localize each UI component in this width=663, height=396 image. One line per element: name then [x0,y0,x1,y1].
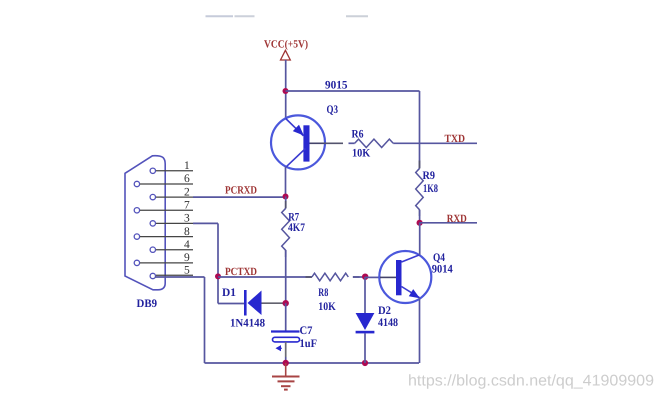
wire D2 top [364,277,366,313]
wire D1 anode to node [262,302,286,304]
wire pin5 to ground run [155,276,205,278]
svg-text:DB9: DB9 [137,298,158,310]
DB9 pin 5 circle [150,273,155,278]
wire PCRXD from pin2 [193,196,286,198]
DB9 pin 1 circle [150,168,155,173]
svg-text:8: 8 [184,226,190,238]
svg-text:VCC(+5V): VCC(+5V) [264,39,308,51]
wire R6 to TXD vertical [393,142,419,144]
node PCTXD junction [215,273,221,279]
svg-text:1uF: 1uF [300,338,318,350]
svg-text:9014: 9014 [432,264,453,276]
wire 9015 horizontal [286,90,420,92]
pin 5 stub [156,265,193,277]
svg-text:7: 7 [184,200,190,212]
wire node to C7 [285,303,287,331]
resistor R9 [419,161,421,169]
svg-text:1: 1 [184,160,190,172]
node D1/C7 junction [283,300,289,306]
wire C7 to ground node [285,342,287,357]
svg-text:Q3: Q3 [327,104,339,116]
wire Q4 collector up to RXD [419,223,421,255]
resistor R8 [306,276,312,278]
wire Q3 collector down [285,167,287,197]
wire bottom ground run [205,362,420,364]
wire VCC vertical to Q3 emitter [285,60,287,120]
DB9 pin 6 circle [134,181,139,186]
svg-text:2: 2 [184,186,190,198]
svg-text:PCRXD: PCRXD [225,185,257,197]
wire D1 left segment [218,303,244,305]
wire pin3 vertical to PCTXD [217,223,219,303]
DB9 pin 8 circle [134,234,139,239]
svg-text:PCTXD: PCTXD [225,266,257,278]
pin 9 stub [140,252,193,264]
transistor Q3 (9015 PNP) [271,115,325,169]
wire RXD line [420,222,477,224]
pin 1 stub [156,160,193,172]
wire PCRXD junction to R7 [285,197,287,209]
pin 7 stub [140,200,193,212]
svg-text:10K: 10K [318,301,336,313]
svg-text:4K7: 4K7 [288,222,305,234]
node RXD junction [417,220,423,226]
svg-text:1K8: 1K8 [423,183,438,195]
background artifacts top [206,15,369,17]
svg-text:5: 5 [184,265,190,277]
svg-text:D2: D2 [378,305,391,317]
svg-text:10K: 10K [352,147,370,159]
wire TXD line [420,142,478,144]
node D2 top junction [362,274,368,280]
wire PCTXD line [218,276,312,278]
svg-text:https://blog.csdn.net/qq_41909: https://blog.csdn.net/qq_41909909 [408,373,654,390]
svg-text:D1: D1 [222,287,236,299]
pin 3 stub [156,213,193,225]
wire Q4 emitter down [419,298,421,363]
node D2 bottom junction [362,360,368,366]
wire R7 bottom to D1 node [285,250,287,303]
transistor Q4 (9014 NPN) [379,251,431,303]
wire Q3 base to R6 [324,142,343,144]
DB9 connector J1 body [125,156,165,290]
diode D1 1N4148 [244,290,262,316]
svg-text:Q4: Q4 [433,252,445,264]
svg-text:9015: 9015 [325,80,348,92]
capacitor C7 1uF [271,332,300,351]
pin 6 stub [140,173,193,185]
svg-text:R8: R8 [318,287,328,299]
svg-text:R6: R6 [352,128,364,140]
svg-text:3: 3 [184,213,190,225]
resistor R7 [285,201,287,208]
node C7/ground junction [283,360,289,366]
wire junction to Q4 base [365,276,381,278]
wire pin5 vertical down [204,277,206,363]
node VCC/9015 junction [283,88,289,94]
pin 8 stub [140,226,193,238]
wire R8 to D2 junction [353,276,365,278]
diode D2 4148 [356,313,375,333]
svg-text:4: 4 [184,239,190,251]
resistor R6 [355,139,394,147]
svg-text:1N4148: 1N4148 [230,318,265,330]
svg-text:4148: 4148 [378,317,398,329]
pin 4 stub [156,239,193,251]
svg-text:R9: R9 [423,170,436,182]
wire D2 bottom [364,333,366,363]
pin 2 stub [156,186,193,198]
DB9 pin 2 circle [150,194,155,199]
svg-text:C7: C7 [300,325,313,337]
node PCRXD junction [283,194,289,200]
DB9 pin 7 circle [134,208,139,213]
power symbol VCC(+5V) [264,39,308,60]
DB9 pin 3 circle [150,221,155,226]
wire pin3 horizontal [193,222,218,224]
svg-text:6: 6 [184,173,190,185]
svg-text:TXD: TXD [445,133,466,145]
ground symbol [272,363,300,390]
DB9 pin 9 circle [134,260,139,265]
wire right vertical 9015 to R9 [419,91,421,168]
wire R9 to RXD junction [419,210,421,223]
svg-text:9: 9 [184,252,190,264]
DB9 pin 4 circle [150,247,155,252]
svg-text:RXD: RXD [447,213,467,225]
